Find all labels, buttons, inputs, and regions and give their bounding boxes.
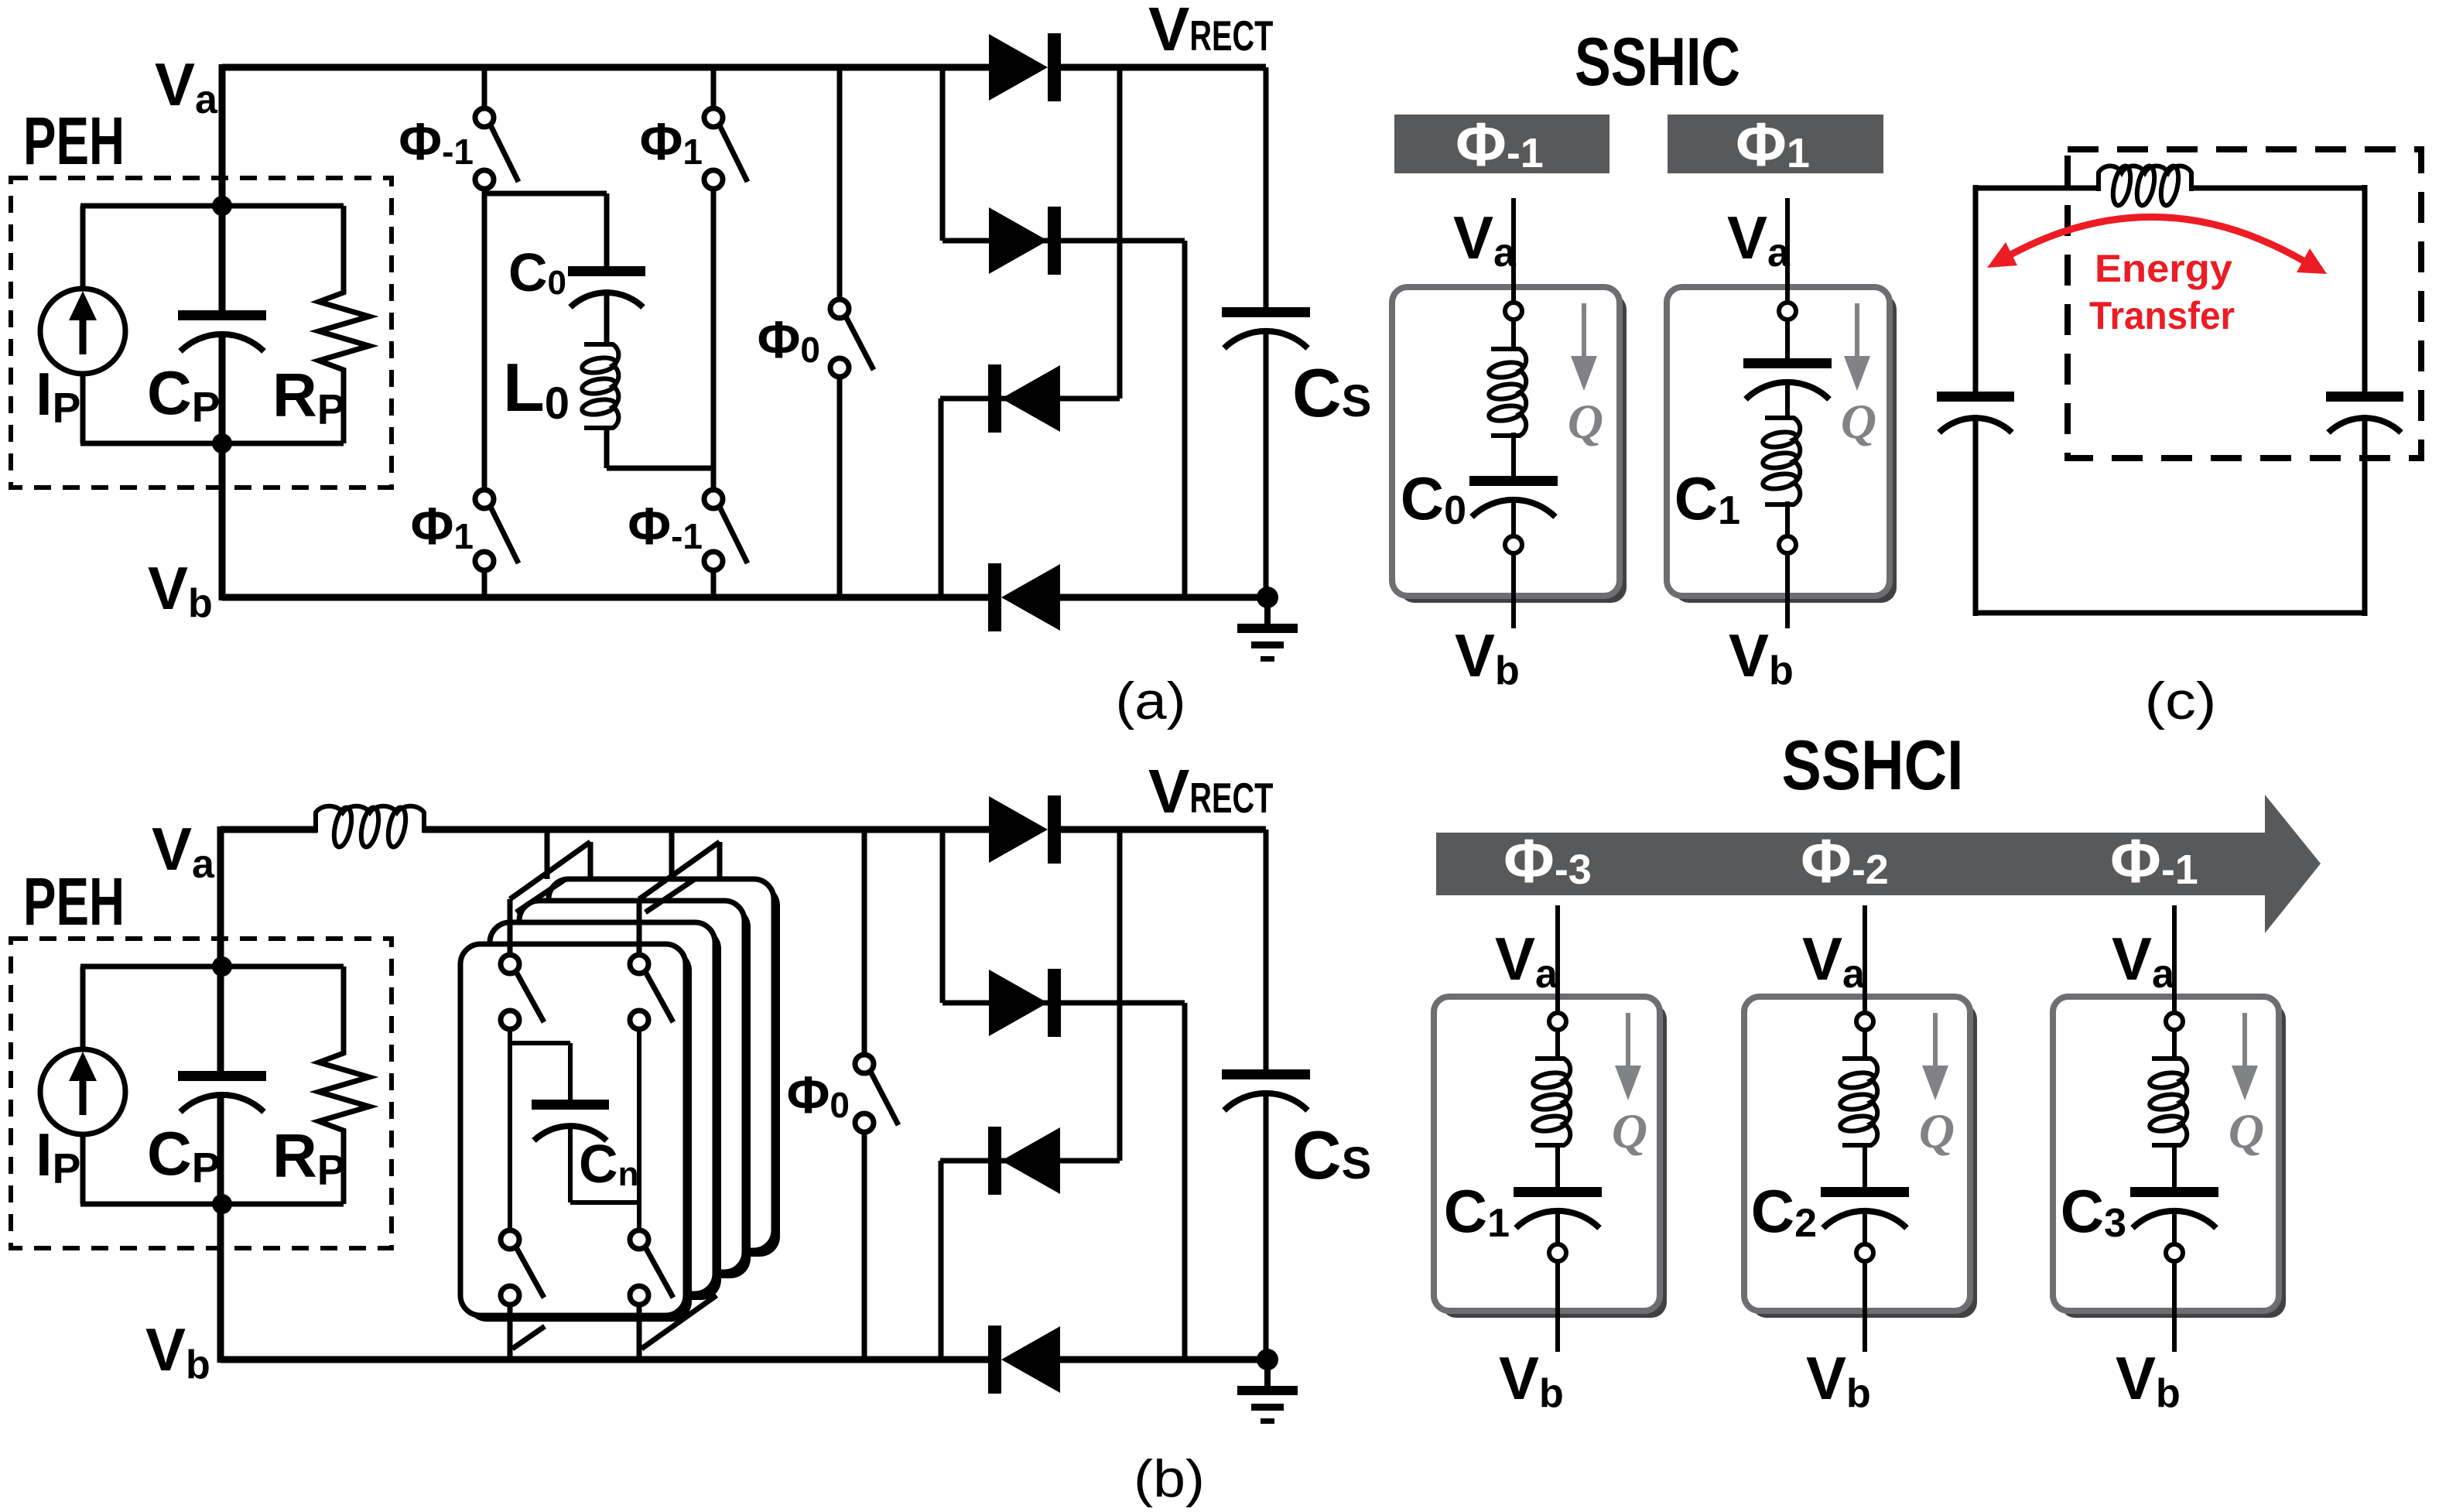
switch bottom-right of Cn box (b) [630,1230,673,1305]
wire bottom (c) [1975,611,2365,616]
svg-text:Energy: Energy [2095,247,2232,290]
wire switch column 1 middle (a) [482,189,487,490]
wire D2 row (a) [942,238,1185,244]
dashed box energy transfer (c) [2068,149,2421,458]
wire VRECT vertical to CS (b) [1264,830,1269,1069]
capacitor C1 box2 [1743,358,1832,399]
inductor (c) [2099,164,2191,207]
wire PHI0 column bottom (a) [837,377,843,600]
wire Cn bottom branch (b) [570,1200,639,1205]
wire to inductor PHI-3 [1555,1030,1560,1059]
wire stack hatch diagonal top-right (b) [639,842,720,899]
switch PHI-1 bottom-right (a) [704,490,747,570]
terminal circle bottom PHI-1 [2166,1244,2183,1261]
inductor L0 (a) [581,344,619,428]
wire stack hatch diagonal top-left (b) [510,842,590,899]
current source IP (b) [40,1049,125,1134]
box phase PHI-1 [2053,997,2286,1318]
wire Va lead PHI-2 [1863,905,1867,1014]
wire PEH top horizontal (a) [80,204,344,209]
wire to inductor PHI-1 [2172,1030,2177,1059]
wire Va lead PHI-3 [1555,905,1560,1014]
svg-text:PEH: PEH [23,864,125,939]
charge arrow Q box2 [1844,303,1870,391]
wire PEH bottom horizontal (b) [80,1202,344,1207]
wire VRECT to D3 anode (b) [1117,830,1123,1161]
wire bottom-right switch to Vb rail (b) [637,1305,642,1363]
node Va-CP junction (b) [212,956,232,977]
wire D3 row (b) [940,1158,1120,1164]
wire to C1 box2 [1785,320,1790,358]
terminal circle top box2 [1779,303,1796,320]
wire switch column 1 bottom (a) [482,570,487,600]
phase banner PHI1 [1668,115,1883,173]
phase arrow SSHCI [1436,795,2321,933]
capacitor bank front box (b) [460,944,692,1322]
wire CS to ground rail (b) [1264,1093,1269,1360]
wire left vertical inside Cn box (b) [508,1029,512,1232]
node ground junction (a) [1257,587,1278,608]
wire rail to stack left (b) [545,830,550,879]
switch top-left of Cn box (b) [501,955,544,1029]
box phase PHI-3 [1434,997,1667,1318]
capacitor bank stacked box 2 (b) [490,922,721,1300]
wire switch column 2 middle (a) [711,189,717,490]
diode D4 (a) [988,563,1060,631]
diode D2 (a) [989,207,1061,275]
wire right cap to bottom (c) [2362,415,2368,616]
wire PEH bottom horizontal (a) [80,441,344,446]
inductor LI series (b) [316,806,424,848]
inductor PHI-3 [1532,1059,1570,1145]
capacitor CP (b) [178,1071,266,1112]
wire D3 row (a) [940,396,1120,402]
capacitor C1 PHI-3 [1514,1187,1602,1228]
box phase PHI-2 [1744,997,1977,1318]
capacitor C3 PHI-1 [2130,1187,2218,1228]
svg-text:Q: Q [1841,394,1876,449]
wire Va vertical lower (a) [219,333,226,600]
switch bottom-left of Cn box (b) [501,1230,544,1305]
node Vb-CP junction (b) [212,1194,232,1214]
wire Cn bottom lead (b) [568,1124,573,1202]
current source IP (a) [40,289,125,374]
capacitor bank stacked box 4 (b) [549,879,780,1257]
wire Vb lead PHI-3 [1555,1261,1560,1352]
wire rail to stack right (b) [669,830,675,879]
wire Cn top lead (b) [568,1043,573,1100]
wire D2 row (b) [942,1001,1185,1006]
svg-text:SSHCI: SSHCI [1782,727,1964,805]
wire Vb bottom rail (b) [221,1356,988,1363]
wire cap to terminal PHI-2 [1863,1211,1867,1244]
wire VRECT to D3 anode (a) [1117,67,1123,399]
wire stack hatch diagonal bottom-left (b) [512,1326,545,1349]
wire Va lead PHI-1 [2172,905,2177,1014]
wire inductor to C0 box1 [1511,433,1516,476]
svg-text:Q: Q [1568,394,1603,449]
wire VRECT top rail (a) [1060,64,1266,71]
inductor box1 [1488,349,1526,436]
wire stack hatch vertical top-left (b) [588,842,594,879]
wire L0 bottom (a) [604,426,610,468]
diode D2 (b) [989,969,1061,1037]
wire Va top rail left (b) [221,826,317,833]
wire Vb bottom rail (a) [222,594,988,601]
phase banner PHI-1 [1394,115,1609,173]
diode D3 (a) [988,364,1060,433]
capacitor CP (a) [178,310,266,351]
diode D3 (b) [988,1127,1060,1195]
wire switch column 1 top (a) [482,67,487,108]
wire stack hatch vertical top-right (b) [717,842,723,879]
ground symbol (a) [1237,597,1298,662]
capacitor left (c) [1937,392,2014,433]
inductor PHI-2 [1839,1059,1877,1145]
terminal circle bottom PHI-2 [1856,1244,1873,1261]
terminal circle bottom box2 [1779,536,1796,553]
terminal circle bottom PHI-3 [1549,1244,1566,1261]
wire L0 to switch column 2 (a) [607,466,713,471]
wire top-left switch lead (b) [508,899,513,956]
wire switch column 2 bottom (a) [711,570,717,600]
charge arrow Q PHI-2 [1922,1013,1948,1100]
wire cap to terminal PHI-1 [2172,1211,2177,1244]
box PHI-1 phase [1392,287,1627,603]
wire PHI0 column top (b) [862,830,867,1055]
wire C1 to inductor box2 [1785,382,1790,418]
wire to C0 branch (a) [484,191,607,197]
wire right vertical inside Cn box (b) [637,1029,641,1232]
ground symbol (b) [1237,1360,1298,1424]
terminal circle top PHI-3 [1549,1013,1566,1030]
wire Vb lead PHI-2 [1863,1261,1867,1352]
switch PHI0 (a) [830,299,874,377]
svg-text:Q: Q [2229,1103,2264,1158]
node Vb-CP junction (a) [212,433,232,453]
wire D2 cathode down to ground rail (b) [1182,1003,1188,1360]
wire inductor to cap PHI-2 [1863,1144,1867,1187]
diode D1 (a) [989,33,1061,101]
capacitor CS (b) [1222,1069,1310,1110]
svg-text:SSHIC: SSHIC [1575,23,1740,100]
resistor RP (b) [319,966,369,1204]
box PHI1 phase [1667,287,1897,603]
wire ground bottom rail (a) [1059,594,1268,601]
wire PHI0 column top (a) [837,67,843,299]
svg-text:(a): (a) [1116,672,1186,730]
wire IP top (a) [80,206,86,292]
wire left vertical (c) [1973,185,1979,392]
wire PHI0 column bottom (b) [862,1132,867,1363]
wire D3 cathode to Vb rail (a) [939,399,944,597]
wire stack hatch diagonal 2 top-right (b) [645,879,695,912]
wire C0 to L0 (a) [604,289,610,344]
wire switch column 2 top (a) [711,67,717,108]
wire top left (c) [1975,186,2100,191]
wire bottom-left switch to Vb rail (b) [508,1305,513,1363]
charge arrow Q PHI-3 [1615,1013,1641,1100]
terminal circle top PHI-2 [1856,1013,1873,1030]
wire top-right switch lead (b) [637,899,642,956]
wire PEH top horizontal (b) [80,964,344,970]
wire Va top rail (a) [222,64,989,71]
charge arrow Q box1 [1571,303,1597,391]
diode D1 (b) [989,795,1061,864]
wire inductor to cap PHI-1 [2172,1144,2177,1187]
capacitor CS (a) [1222,307,1310,348]
wire CS to ground rail (a) [1264,330,1269,597]
wire Va vertical (b) [217,826,224,1071]
wire Va top rail (b) [422,826,989,833]
wire VRECT vertical to CS (a) [1264,67,1269,307]
wire Va vertical (a) [219,64,226,310]
wire IP bottom (a) [80,371,86,443]
svg-text:PEH: PEH [23,104,125,179]
wire VRECT top rail (b) [1060,826,1266,833]
svg-text:Q: Q [1612,1103,1647,1158]
wire C0 to terminal box1 [1511,500,1516,536]
node ground junction (b) [1257,1349,1278,1370]
inductor box2 [1762,418,1800,505]
wire to inductor box1 [1511,320,1516,348]
wire stack hatch diagonal bottom-right (b) [641,1295,717,1349]
wire right vertical (c) [2362,185,2368,392]
switch PHI-1 top-left (a) [475,108,518,189]
switch PHI1 top-right (a) [704,108,747,189]
terminal circle bottom box1 [1505,536,1522,553]
inductor PHI-1 [2149,1059,2187,1145]
wire cap to terminal PHI-3 [1555,1211,1560,1244]
wire Vb lead box1 [1511,553,1516,628]
wire IP bottom (b) [80,1132,86,1204]
terminal circle top box1 [1505,303,1522,320]
energy transfer arrow (c) [1987,217,2327,274]
switch PHI0 (b) [855,1055,898,1132]
PEH dashed box (b) [11,939,392,1248]
svg-text:Q: Q [1919,1103,1955,1158]
wire Va lead box2 [1785,198,1790,303]
capacitor C0 box1 [1469,476,1558,517]
wire top right (c) [2191,186,2365,191]
svg-text:(c): (c) [2145,672,2217,730]
wire inductor to cap PHI-3 [1555,1144,1560,1187]
wire Va to D2 anode (a) [940,67,946,241]
wire Vb lead box2 [1785,553,1790,628]
switch PHI1 bottom-left (a) [475,490,518,570]
capacitor Cn (b) [532,1100,609,1141]
capacitor bank stacked box 3 (b) [519,901,751,1278]
wire ground bottom rail (b) [1059,1356,1268,1363]
wire inductor to terminal box2 [1785,501,1790,536]
resistor RP (a) [319,206,369,443]
node Va-CP junction (a) [212,196,232,216]
wire Va to D2 anode (b) [940,830,946,1003]
wire stack hatch diagonal 2 top-left (b) [516,879,566,912]
svg-text:(b): (b) [1134,1449,1205,1508]
charge arrow Q PHI-1 [2232,1013,2258,1100]
wire left cap to bottom (c) [1973,415,1979,616]
wire Vb lead PHI-1 [2172,1261,2177,1352]
wire Cn top branch (b) [510,1041,570,1045]
terminal circle top PHI-1 [2166,1013,2183,1030]
wire to inductor PHI-2 [1863,1030,1867,1059]
capacitor C0 (a) [568,266,645,307]
wire D3 cathode to Vb rail (b) [939,1161,944,1360]
switch top-right of Cn box (b) [630,955,673,1029]
svg-text:Transfer: Transfer [2089,294,2235,337]
wire Va lead box1 [1511,198,1516,303]
wire C0 top (a) [604,193,610,266]
PEH dashed box (a) [11,178,392,487]
capacitor C2 PHI-2 [1821,1187,1909,1228]
wire IP top (b) [80,966,86,1053]
diode D4 (b) [988,1326,1060,1394]
capacitor right (c) [2326,392,2403,433]
wire D2 cathode down to ground rail (a) [1182,241,1188,597]
wire Va vertical lower (b) [217,1093,224,1363]
